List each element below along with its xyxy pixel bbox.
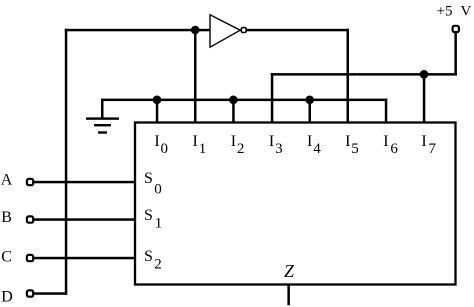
wire: I4 column bbox=[309, 100, 312, 123]
svg-text:2: 2 bbox=[154, 257, 162, 273]
svg-text:B: B bbox=[1, 209, 12, 226]
wire: I1 column (D to pin I1) bbox=[194, 30, 197, 123]
junction: +5V tap to I7 bbox=[420, 70, 429, 79]
pin label I1 bbox=[193, 133, 207, 157]
svg-text:+5: +5 bbox=[437, 4, 453, 20]
wire: I5 column (inverter output to pin I5) bbox=[347, 29, 350, 123]
wire: inverter output horizontal bbox=[247, 29, 349, 32]
pin label I3 bbox=[269, 133, 283, 157]
wire: +5V bus horizontal right part bbox=[357, 73, 457, 76]
wire: I6 column (end of ground bus) bbox=[385, 99, 388, 123]
svg-text:I: I bbox=[193, 133, 198, 150]
wire: I0 column bbox=[156, 100, 159, 123]
pin label I7 bbox=[421, 133, 436, 157]
terminal: input A bbox=[27, 179, 33, 185]
svg-text:0: 0 bbox=[161, 141, 169, 157]
wire: D net top horizontal to inverter input bbox=[65, 29, 211, 32]
wire: +5V bus horizontal bbox=[271, 73, 357, 76]
pin label S1 bbox=[144, 207, 162, 232]
svg-text:C: C bbox=[1, 249, 12, 266]
pin label I6 bbox=[383, 133, 398, 157]
svg-text:I: I bbox=[231, 133, 236, 150]
terminal: +5 V supply bbox=[453, 26, 459, 32]
junction: ground tap to I2 bbox=[229, 96, 238, 105]
wire: I7 column bbox=[423, 74, 426, 123]
pin label S2 bbox=[144, 248, 162, 272]
label +5 V bbox=[437, 4, 472, 20]
svg-text:1: 1 bbox=[155, 215, 163, 231]
wire: +5V drop vertical bbox=[454, 33, 457, 76]
pin label I2 bbox=[231, 133, 245, 157]
svg-text:1: 1 bbox=[199, 141, 207, 157]
wire: ground bus horizontal bbox=[101, 99, 387, 102]
pin label I5 bbox=[345, 133, 359, 157]
wire: D riser (vertical, left side) bbox=[65, 29, 68, 295]
terminal: input B bbox=[27, 216, 33, 222]
svg-text:0: 0 bbox=[154, 182, 162, 198]
svg-text:D: D bbox=[1, 288, 13, 305]
svg-text:I: I bbox=[421, 133, 426, 150]
wire: D terminal to riser (horizontal) bbox=[33, 292, 67, 295]
wire: A to S0 bbox=[34, 181, 136, 184]
svg-text:I: I bbox=[383, 133, 388, 150]
junction: D net tap to I1 bbox=[191, 26, 200, 35]
multiplexer U1 (8-to-1 MUX box) bbox=[135, 123, 456, 285]
svg-text:I: I bbox=[345, 133, 350, 150]
pin label I0 bbox=[154, 133, 168, 157]
svg-text:3: 3 bbox=[275, 141, 283, 157]
wire: B to S1 bbox=[34, 218, 136, 221]
svg-text:7: 7 bbox=[429, 141, 437, 157]
svg-text:I: I bbox=[269, 133, 274, 150]
terminal: input D bbox=[27, 290, 33, 296]
pin label I4 bbox=[307, 133, 321, 157]
svg-text:5: 5 bbox=[351, 141, 359, 157]
svg-text:6: 6 bbox=[390, 141, 398, 157]
junction: ground tap to I0 bbox=[153, 96, 162, 105]
wire: ground stub vertical bbox=[101, 99, 104, 120]
svg-text:2: 2 bbox=[237, 141, 245, 157]
svg-text:V: V bbox=[461, 4, 472, 20]
svg-text:I: I bbox=[154, 133, 159, 150]
svg-text:Z: Z bbox=[284, 261, 295, 281]
svg-text:S: S bbox=[144, 207, 153, 224]
wire: I3 column (+5V to pin I3) bbox=[271, 73, 274, 123]
svg-text:S: S bbox=[144, 248, 153, 265]
wire: C to S2 bbox=[34, 257, 136, 260]
wire: output Z stub bbox=[287, 285, 290, 306]
inverter U2 triangle bbox=[210, 15, 240, 47]
svg-text:4: 4 bbox=[313, 141, 321, 157]
pin label S0 bbox=[144, 170, 162, 197]
wire: I2 column bbox=[232, 100, 235, 123]
terminal: input C bbox=[27, 255, 33, 261]
svg-text:I: I bbox=[307, 133, 312, 150]
ground symbol bbox=[86, 117, 119, 133]
inverter U2 output bubble bbox=[241, 28, 246, 33]
svg-text:A: A bbox=[1, 172, 13, 189]
junction: ground tap to I4 bbox=[305, 96, 314, 105]
svg-text:S: S bbox=[144, 170, 153, 187]
